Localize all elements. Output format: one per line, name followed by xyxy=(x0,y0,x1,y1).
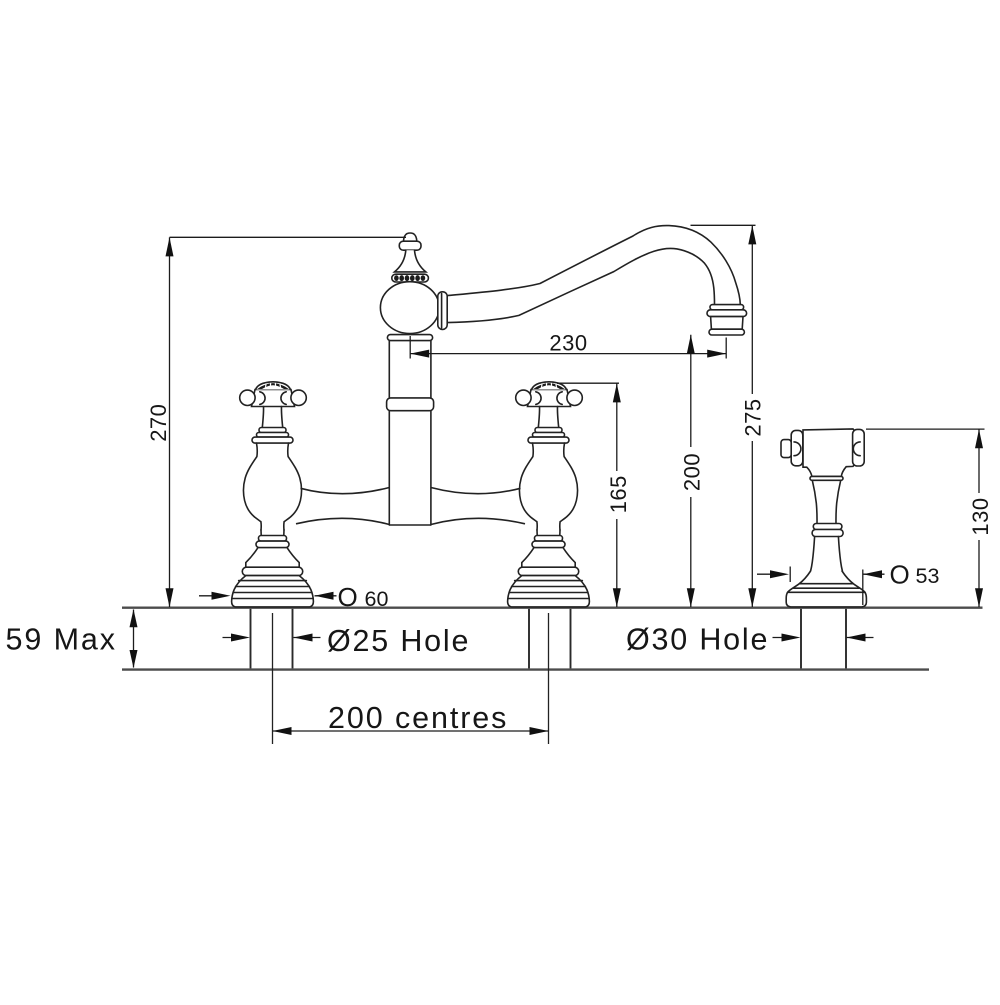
svg-text:Ø30 Hole: Ø30 Hole xyxy=(626,623,769,657)
svg-text:165: 165 xyxy=(606,475,631,513)
svg-text:230: 230 xyxy=(549,331,587,356)
svg-text:60: 60 xyxy=(365,587,389,611)
svg-text:270: 270 xyxy=(146,404,171,442)
svg-text:Ø25 Hole: Ø25 Hole xyxy=(327,624,470,658)
svg-text:130: 130 xyxy=(968,497,993,535)
svg-text:53: 53 xyxy=(916,564,940,588)
svg-text:O: O xyxy=(338,582,358,612)
svg-text:200 centres: 200 centres xyxy=(328,701,508,735)
svg-text:O: O xyxy=(890,560,910,590)
svg-text:275: 275 xyxy=(741,398,766,436)
svg-text:200: 200 xyxy=(680,453,705,491)
svg-text:59 Max: 59 Max xyxy=(6,623,117,657)
